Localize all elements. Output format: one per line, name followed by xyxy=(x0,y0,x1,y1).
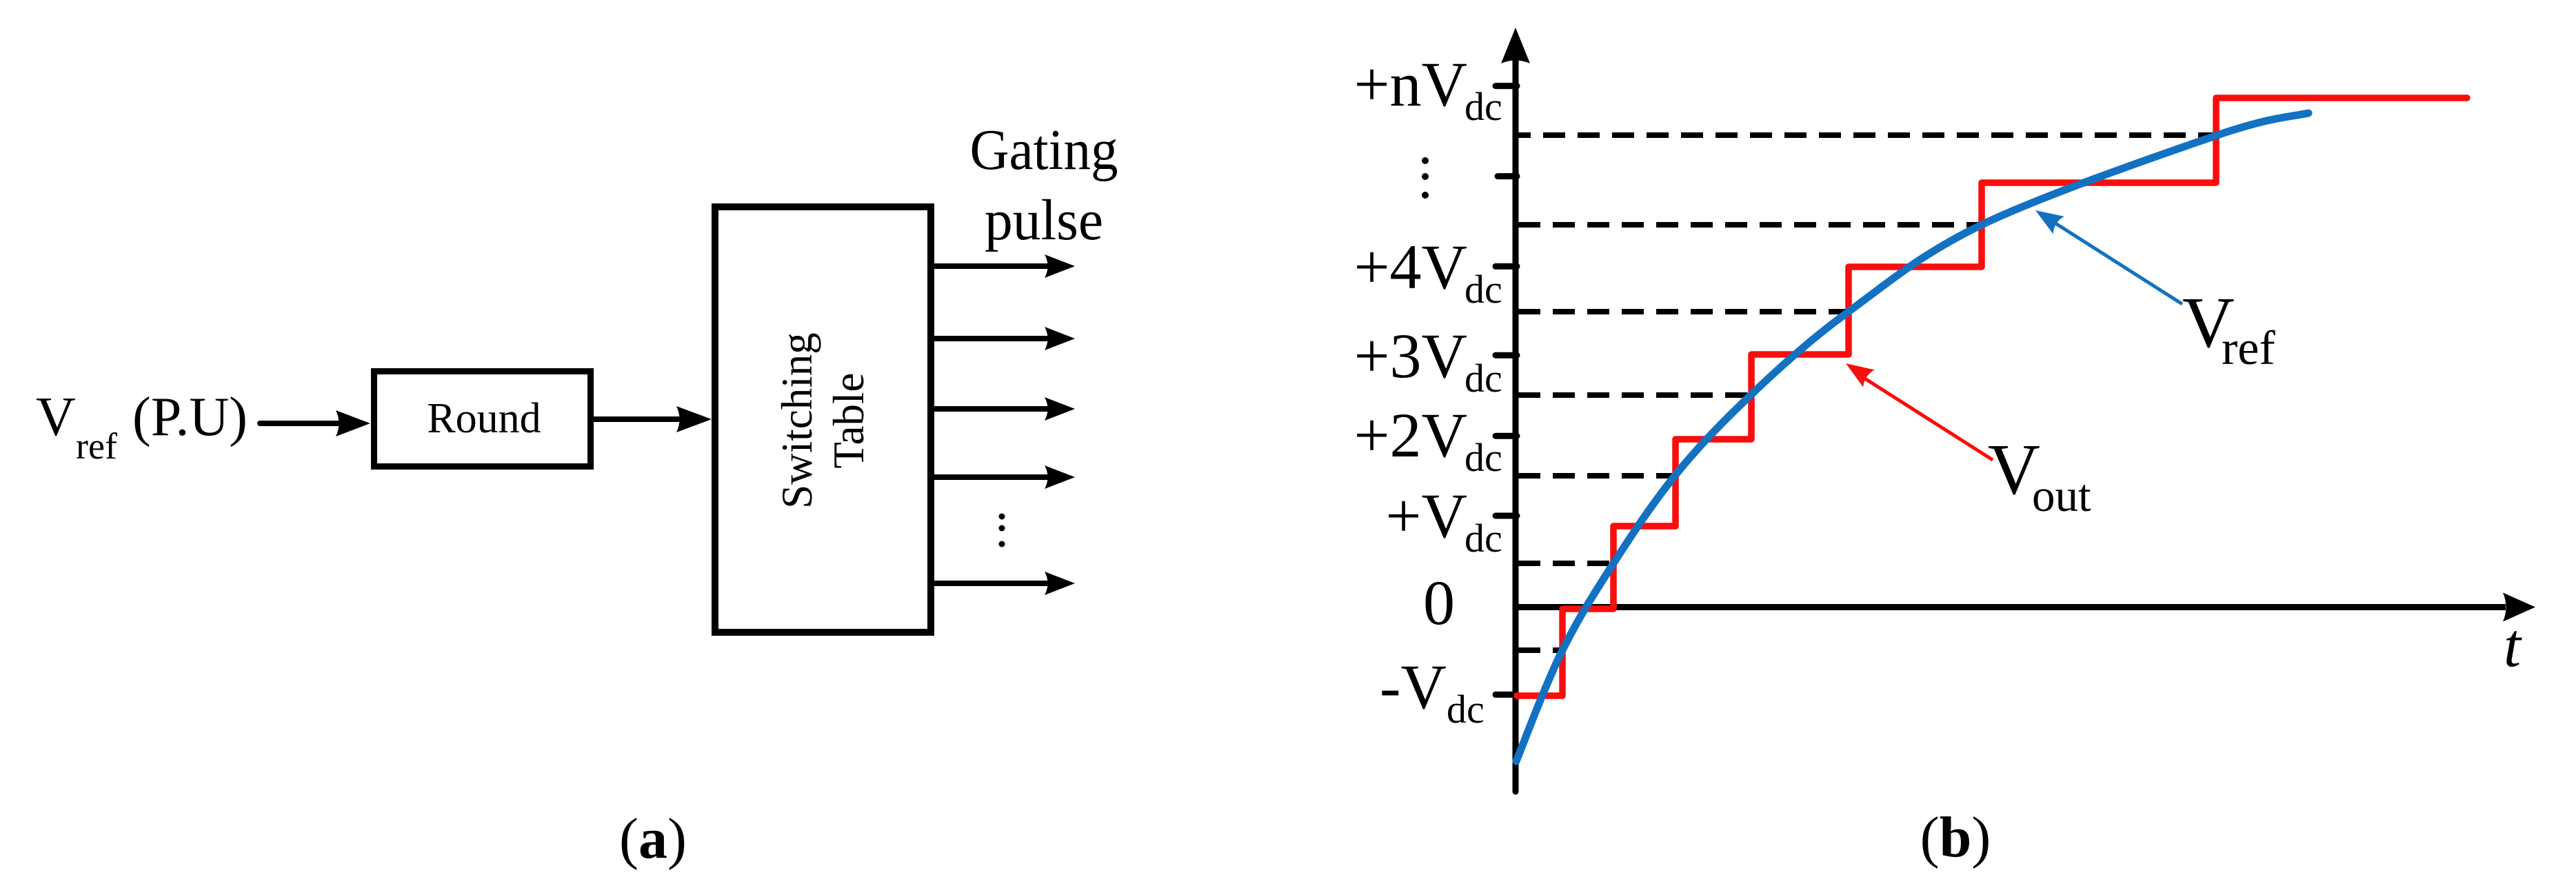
wire gating arrow 1 xyxy=(934,254,1075,278)
label +3Vdc xyxy=(1354,321,1502,401)
svg-text:Switching: Switching xyxy=(773,332,821,509)
wire gating arrow 4 xyxy=(934,465,1075,489)
axis x part b xyxy=(1516,593,2535,622)
block Round xyxy=(374,372,591,467)
label Vref xyxy=(2182,282,2275,375)
dashed halfway line 4 xyxy=(1518,392,1752,398)
dashed halfway line 5 xyxy=(1518,473,1676,479)
svg-text:(a): (a) xyxy=(619,807,687,871)
svg-text:out: out xyxy=(2032,470,2091,521)
svg-text:Round: Round xyxy=(427,395,541,442)
svg-text:Gating: Gating xyxy=(970,118,1118,182)
svg-text:+2V: +2V xyxy=(1354,400,1467,470)
svg-text:dc: dc xyxy=(1465,84,1502,129)
label +nVdc xyxy=(1354,49,1502,129)
svg-text:+3V: +3V xyxy=(1354,321,1467,391)
svg-text:Table: Table xyxy=(825,372,873,468)
svg-text:dc: dc xyxy=(1465,356,1502,401)
svg-text:0: 0 xyxy=(1423,567,1455,638)
svg-text:-V: -V xyxy=(1380,652,1447,722)
svg-text:t: t xyxy=(2504,612,2522,680)
label +4Vdc xyxy=(1354,232,1502,312)
svg-text:+V: +V xyxy=(1386,481,1467,551)
svg-text:+4V: +4V xyxy=(1354,232,1467,302)
svg-text:dc: dc xyxy=(1465,435,1502,480)
svg-text:(b): (b) xyxy=(1920,805,1991,869)
svg-text:dc: dc xyxy=(1447,687,1485,732)
node Vref(P.U) input label xyxy=(36,387,248,467)
svg-text:dc: dc xyxy=(1465,516,1502,561)
tick +nVdc xyxy=(1496,83,1517,89)
wire gating arrow 2 xyxy=(934,327,1075,350)
curve Vref blue xyxy=(1516,113,2308,761)
tick +4Vdc xyxy=(1496,263,1517,270)
block Switching Table xyxy=(715,207,931,632)
tick +Vdc xyxy=(1496,513,1517,519)
svg-text:(P.U): (P.U) xyxy=(132,387,248,447)
dashed halfway line 2 xyxy=(1518,222,1982,228)
svg-text:ref: ref xyxy=(2222,322,2275,375)
node vdots part b xyxy=(1422,157,1429,199)
svg-text:V: V xyxy=(36,387,76,447)
tick vdots level xyxy=(1498,173,1517,179)
svg-text:pulse: pulse xyxy=(985,188,1103,252)
dashed halfway line 1 xyxy=(1518,132,2216,138)
wire gating arrow 3 xyxy=(934,397,1075,421)
dashed halfway line 6 xyxy=(1518,561,1614,566)
wire Round to Switching Table xyxy=(594,406,712,432)
tick -Vdc xyxy=(1496,692,1517,698)
axis y part b xyxy=(1501,28,1530,792)
node ellipsis dots part a xyxy=(999,514,1005,547)
tick +2Vdc xyxy=(1496,433,1517,439)
wire input arrow to Round xyxy=(260,410,370,436)
curve Vout red staircase xyxy=(1517,98,2467,696)
label Vout xyxy=(1988,429,2091,521)
pointer arrow to Vref curve xyxy=(2035,210,2182,304)
wire gating arrow 5 xyxy=(934,572,1075,595)
svg-text:+nV: +nV xyxy=(1354,49,1467,119)
label -Vdc xyxy=(1380,652,1485,732)
dashed halfway line 7 xyxy=(1518,647,1563,653)
tick +3Vdc xyxy=(1496,352,1517,359)
svg-text:dc: dc xyxy=(1465,267,1502,312)
pointer arrow to Vout staircase xyxy=(1846,363,1993,460)
label Gating pulse xyxy=(970,118,1118,252)
label +Vdc xyxy=(1386,481,1502,561)
svg-text:ref: ref xyxy=(76,425,117,467)
label +2Vdc xyxy=(1354,400,1502,480)
dashed halfway line 3 xyxy=(1518,309,1849,314)
